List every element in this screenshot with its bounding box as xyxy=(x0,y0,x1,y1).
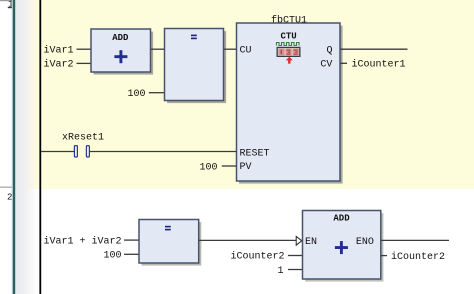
wire EQ2 output to ADD2 EN xyxy=(199,239,297,241)
svg-text:iCounter2: iCounter2 xyxy=(231,251,285,263)
wire contact to CTU RESET xyxy=(89,151,236,153)
left power rail xyxy=(39,0,41,294)
svg-text:ENO: ENO xyxy=(356,237,374,248)
margin separator above network 1 xyxy=(0,0,12,1)
svg-text:ADD: ADD xyxy=(112,33,129,43)
margin gutter (network 1 rows) xyxy=(15,0,40,189)
network 1 background (selected, yellow) xyxy=(41,0,474,189)
svg-text:iVar1: iVar1 xyxy=(44,44,74,56)
svg-text:100: 100 xyxy=(128,89,146,100)
wire CV output to iCounter1 xyxy=(340,62,347,64)
svg-text:100: 100 xyxy=(104,251,122,262)
margin separator between network 1 and 2 xyxy=(0,187,12,188)
contact xReset1 xyxy=(74,146,89,157)
svg-text:EN: EN xyxy=(305,237,317,248)
wire 100 to CTU PV xyxy=(222,165,237,167)
CTU icon digit display xyxy=(277,47,301,57)
svg-text:CTU: CTU xyxy=(281,32,297,42)
svg-text:iCounter2: iCounter2 xyxy=(391,251,445,263)
wire ADD output to EQ input 1 xyxy=(151,48,165,50)
svg-text:ADD: ADD xyxy=(333,213,350,223)
CTU function block fbCTU1 xyxy=(237,23,343,184)
wire 100 to EQ input 2 xyxy=(149,92,165,94)
wire 100 to EQ2 input 2 xyxy=(124,253,139,255)
svg-text:100: 100 xyxy=(200,162,218,173)
margin gutter (network 2 rows) xyxy=(15,189,40,294)
ADD block (network 1) xyxy=(91,29,153,75)
EQ block (network 2) xyxy=(139,220,201,266)
wire ENO output xyxy=(381,239,449,241)
ADD block (network 2) xyxy=(303,211,384,282)
network 2 background xyxy=(41,189,474,294)
wire iVar2 to ADD input 2 xyxy=(77,62,92,64)
svg-text:2: 2 xyxy=(7,193,12,203)
wire 1 to ADD2 input 3 xyxy=(288,269,303,271)
network 1 collapse mark xyxy=(8,7,12,8)
svg-text:PV: PV xyxy=(240,162,252,173)
svg-text:CV: CV xyxy=(320,59,332,70)
svg-text:RESET: RESET xyxy=(240,149,270,160)
svg-text:CU: CU xyxy=(240,45,252,56)
svg-text:iCounter1: iCounter1 xyxy=(352,59,406,71)
EN input triangle xyxy=(296,236,302,245)
wire iCounter2 to ADD2 input 2 xyxy=(288,255,303,257)
svg-text:Q: Q xyxy=(327,45,333,56)
svg-text:iVar1 + iVar2: iVar1 + iVar2 xyxy=(44,235,122,247)
CTU icon red up arrow xyxy=(286,57,293,64)
CTU icon pulse train xyxy=(277,43,300,46)
wire iVar1+iVar2 to EQ2 input 1 xyxy=(124,239,139,241)
wire rail to contact xReset1 xyxy=(41,151,74,153)
EQ block (network 1) xyxy=(165,29,227,104)
svg-text:iVar2: iVar2 xyxy=(44,59,74,71)
wire Q output xyxy=(340,48,407,50)
wire iVar1 to ADD input 1 xyxy=(77,48,92,50)
svg-text:xReset1: xReset1 xyxy=(62,132,104,143)
margin teal rule xyxy=(12,0,13,294)
wire EQ output to CTU CU xyxy=(224,48,237,50)
wire ADD2 result to iCounter2 xyxy=(381,255,387,257)
svg-text:1: 1 xyxy=(278,266,284,277)
